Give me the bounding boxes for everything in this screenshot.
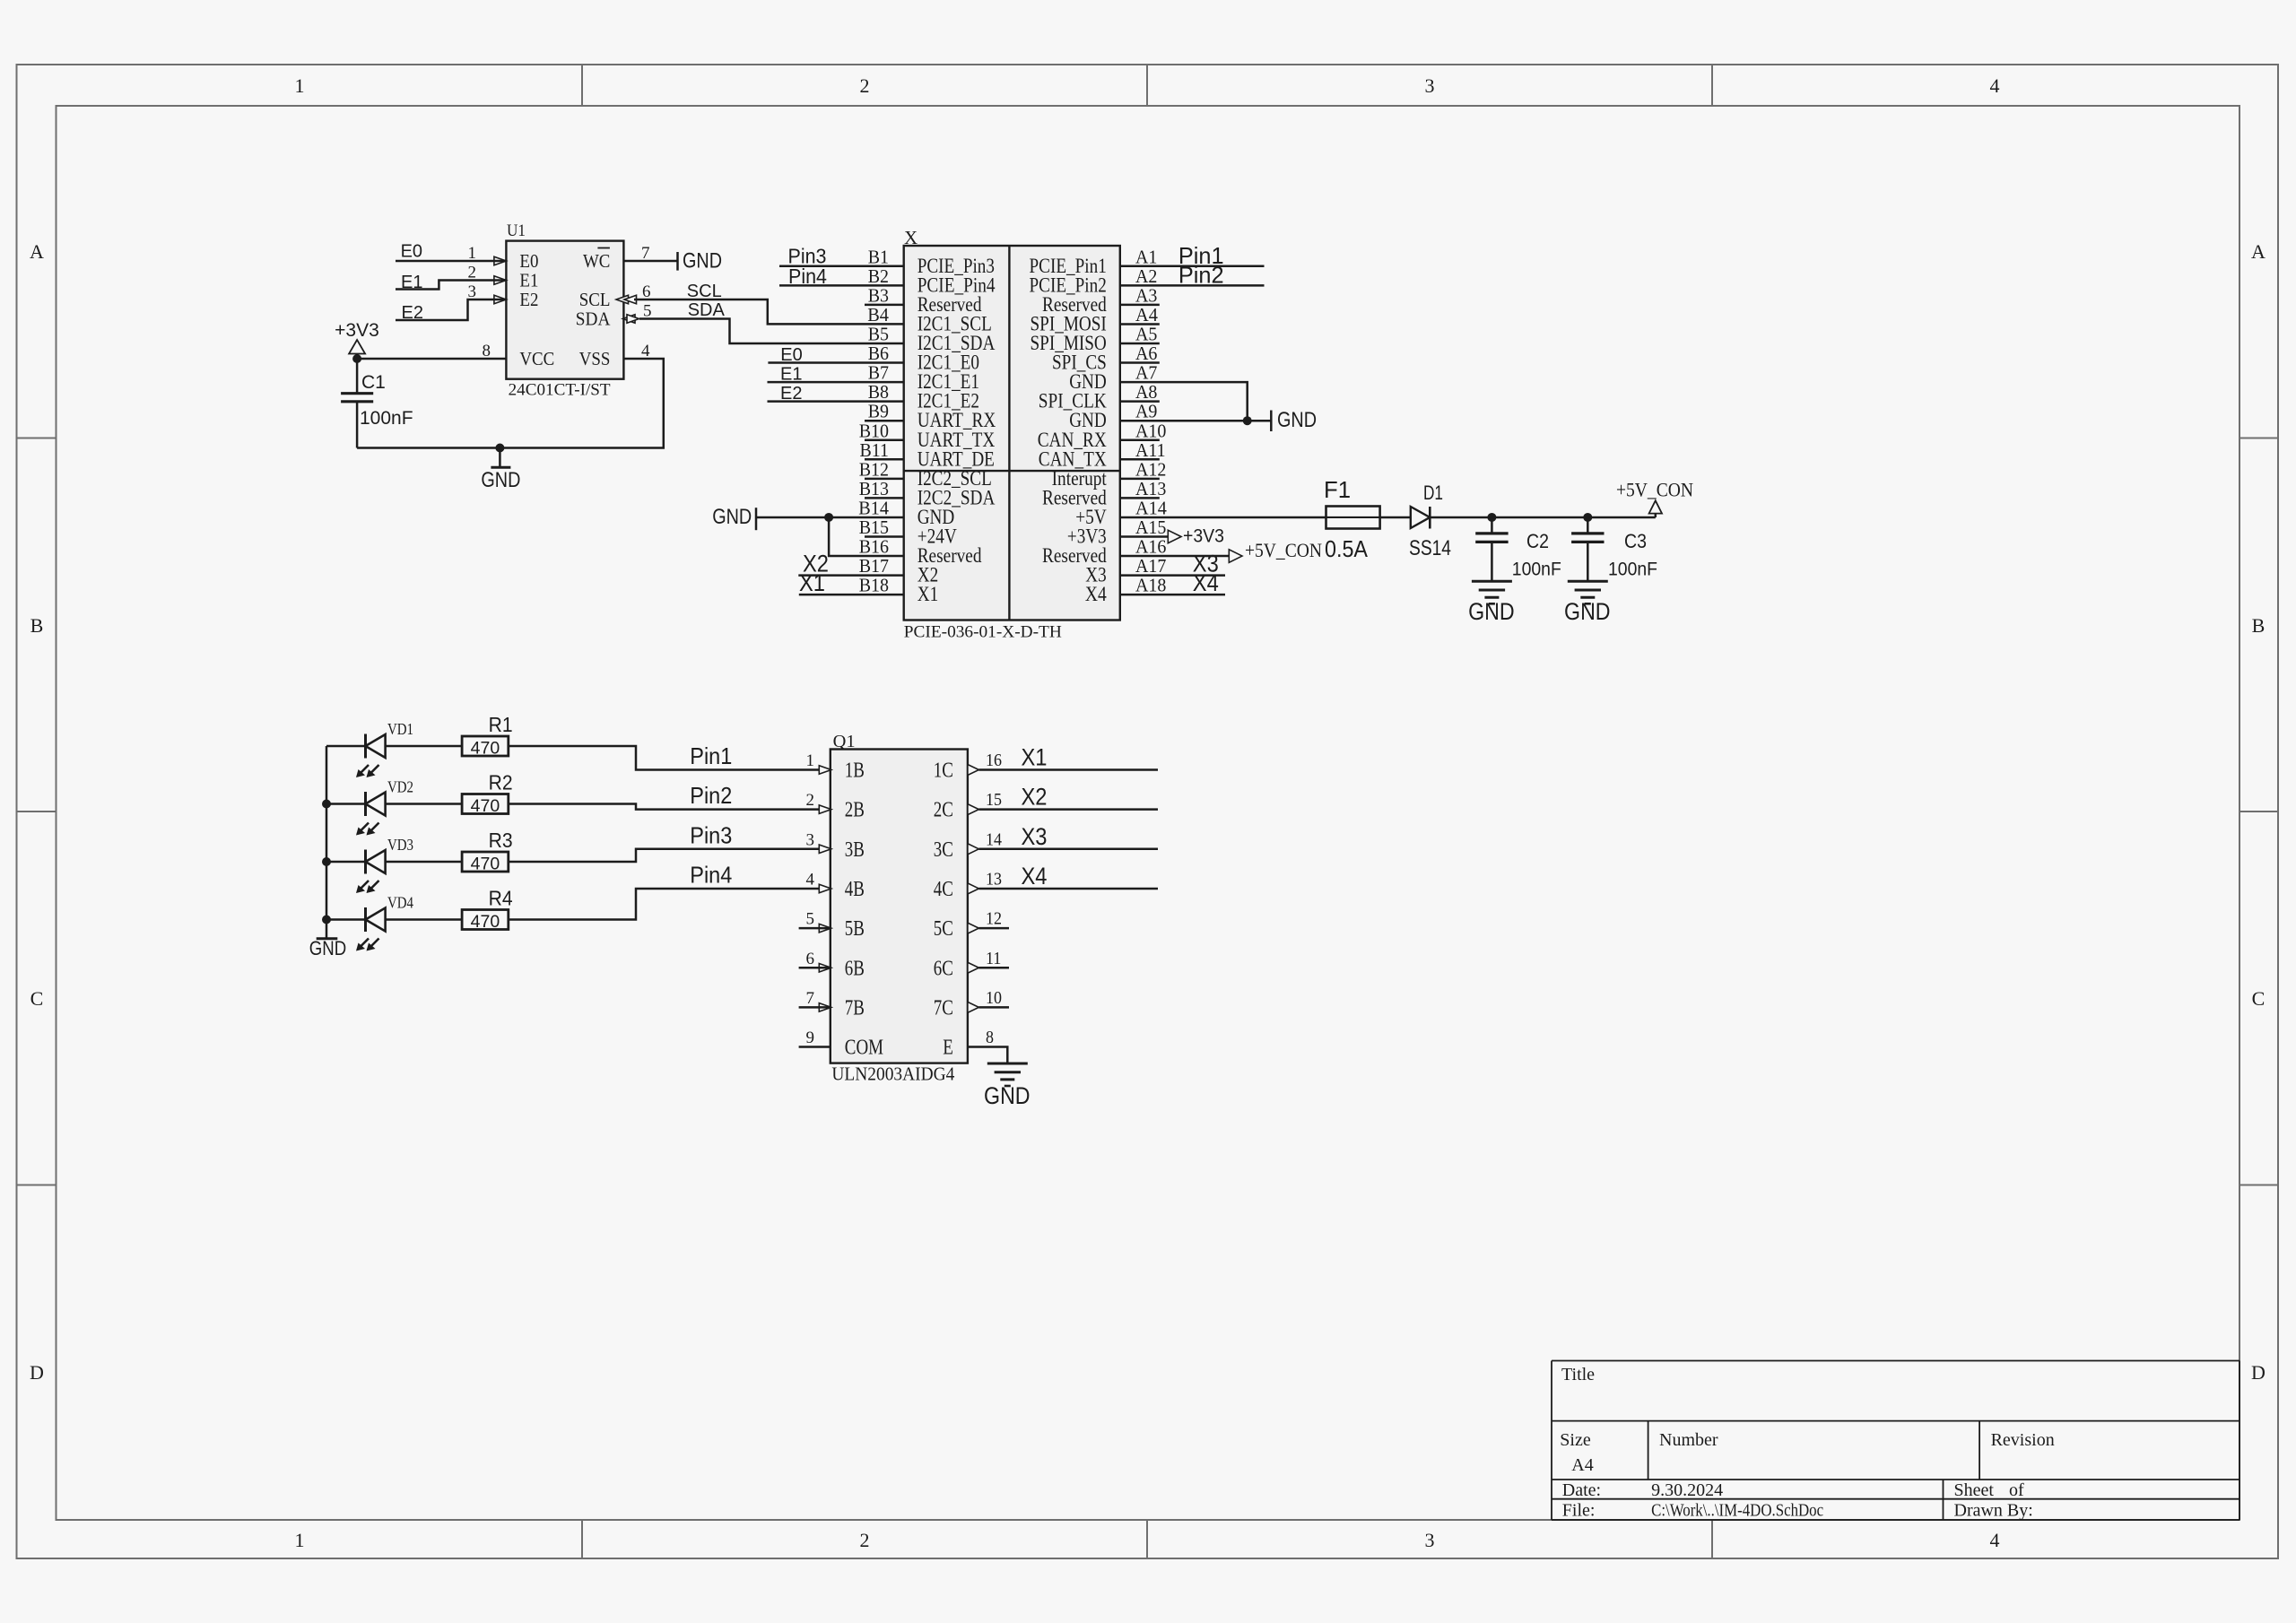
svg-text:F1: F1 xyxy=(1324,476,1351,503)
resistor R3 470 xyxy=(462,829,513,874)
wire R3 to Q1 pin 3 xyxy=(509,849,831,862)
svg-text:X1: X1 xyxy=(799,569,825,596)
svg-text:E2: E2 xyxy=(519,289,538,310)
svg-text:B18: B18 xyxy=(859,575,889,596)
net label X3 at X A17 xyxy=(1193,551,1219,577)
svg-text:3: 3 xyxy=(1425,1529,1435,1551)
wire X4 from Q1 pin 13 xyxy=(978,888,1158,890)
svg-text:X: X xyxy=(904,227,918,248)
wire E0 to X B6 xyxy=(768,361,903,364)
svg-text:B12: B12 xyxy=(859,458,889,480)
svg-text:X4: X4 xyxy=(1193,569,1219,596)
svg-text:B3: B3 xyxy=(868,284,889,306)
wire stub Q1 pin 7B xyxy=(799,1006,831,1009)
junction on LED bus row 3 xyxy=(322,857,331,866)
svg-text:SCL: SCL xyxy=(579,289,611,310)
svg-text:0.5A: 0.5A xyxy=(1325,535,1369,562)
svg-text:A5: A5 xyxy=(1135,324,1157,345)
svg-text:X4: X4 xyxy=(1022,863,1048,890)
svg-text:A7: A7 xyxy=(1135,362,1157,384)
wire E2 to U1 pin 3 xyxy=(396,299,506,320)
svg-text:Title: Title xyxy=(1561,1365,1595,1384)
svg-text:1B: 1B xyxy=(845,759,865,783)
wire X1 from Q1 pin 16 xyxy=(978,768,1158,771)
resistor R1 470 xyxy=(462,713,513,759)
wire SDA U1 pin5 to X B5 xyxy=(639,319,904,344)
resistor R2 470 xyxy=(462,771,513,817)
wire stub X pin A12 xyxy=(1120,478,1160,481)
svg-text:B13: B13 xyxy=(859,478,889,499)
wire X4 at X A18 xyxy=(1120,594,1225,596)
wire Q1 E pin8 to ground GND xyxy=(968,1047,1031,1109)
net label E0 at X B6 xyxy=(780,345,802,365)
svg-text:Pin1: Pin1 xyxy=(690,742,732,769)
net label Pin1 xyxy=(690,742,732,769)
net label X3 at Q1 xyxy=(1022,823,1048,850)
svg-text:E0: E0 xyxy=(519,250,538,272)
svg-text:E0: E0 xyxy=(401,242,422,262)
svg-text:GND: GND xyxy=(984,1082,1031,1109)
svg-text:5C: 5C xyxy=(934,917,953,941)
svg-text:GND: GND xyxy=(1564,598,1611,625)
svg-text:3B: 3B xyxy=(845,838,865,862)
net label X2 at X B17 xyxy=(803,551,829,577)
wire stub X pin B15 xyxy=(865,535,904,538)
svg-text:11: 11 xyxy=(986,949,1001,968)
svg-text:A: A xyxy=(2251,240,2266,263)
svg-text:B16: B16 xyxy=(859,536,889,558)
svg-text:SDA: SDA xyxy=(688,300,726,320)
resistor R4 470 xyxy=(462,887,513,933)
net label E2 xyxy=(402,303,423,323)
wire stub Q1 pin 5C xyxy=(978,927,1009,930)
wire R2 to Q1 pin 2 xyxy=(509,804,831,810)
wire Pin3 to X B1 xyxy=(779,265,904,268)
svg-text:A1: A1 xyxy=(1135,246,1157,267)
wire stub X pin A3 xyxy=(1120,304,1160,307)
net label E0 xyxy=(401,242,422,262)
svg-text:6: 6 xyxy=(806,950,815,968)
wire SCL U1 pin6 to X B4 xyxy=(634,299,904,324)
LED VD3 xyxy=(326,836,462,893)
net label X1 at X B18 xyxy=(799,569,825,596)
svg-text:9: 9 xyxy=(806,1028,815,1047)
svg-text:SS14: SS14 xyxy=(1409,536,1451,560)
svg-text:PCIE-036-01-X-D-TH: PCIE-036-01-X-D-TH xyxy=(904,623,1062,642)
svg-text:2B: 2B xyxy=(845,799,865,822)
svg-text:X4: X4 xyxy=(1085,583,1107,605)
svg-text:D1: D1 xyxy=(1423,482,1443,504)
wire X A7 GND down xyxy=(1120,382,1248,421)
svg-text:4: 4 xyxy=(806,870,815,889)
svg-text:WC: WC xyxy=(583,250,610,272)
svg-text:VD3: VD3 xyxy=(387,836,413,854)
svg-text:470: 470 xyxy=(471,739,500,759)
svg-text:ULN2003AIDG4: ULN2003AIDG4 xyxy=(831,1063,954,1085)
wire E0 to U1 pin 1 xyxy=(396,260,506,263)
svg-text:+5V_CON: +5V_CON xyxy=(1616,479,1693,501)
svg-text:C3: C3 xyxy=(1624,530,1647,552)
svg-text:470: 470 xyxy=(471,796,500,816)
net label Pin2 at X A2 xyxy=(1178,262,1224,289)
svg-text:X3: X3 xyxy=(1022,823,1048,850)
svg-text:X1: X1 xyxy=(1022,744,1048,771)
svg-text:B6: B6 xyxy=(868,343,889,364)
wire stub X pin A10 xyxy=(1120,439,1160,442)
svg-text:2: 2 xyxy=(860,1529,870,1551)
wire LED cathode bus xyxy=(326,746,328,938)
ground GND at X A9 xyxy=(1271,408,1317,432)
svg-text:B4: B4 xyxy=(867,304,889,325)
net label SCL xyxy=(687,282,722,301)
wire X A2 Pin2 xyxy=(1120,284,1265,287)
svg-text:Number: Number xyxy=(1659,1430,1718,1450)
wire X A9 GND xyxy=(1120,420,1272,422)
svg-text:A10: A10 xyxy=(1135,420,1166,441)
svg-text:A8: A8 xyxy=(1135,381,1157,403)
svg-text:A2: A2 xyxy=(1135,265,1157,287)
svg-text:B2: B2 xyxy=(868,265,889,287)
capacitor C1 100nF xyxy=(341,359,413,448)
net label Pin2 xyxy=(690,782,732,809)
svg-text:5B: 5B xyxy=(845,917,865,941)
svg-text:B11: B11 xyxy=(860,439,890,461)
wire stub X pin B13 xyxy=(865,497,904,499)
wire stub X pin A6 xyxy=(1120,361,1160,364)
svg-text:B14: B14 xyxy=(858,497,889,518)
junction at C3 xyxy=(1583,513,1592,522)
junction on LED bus row 2 xyxy=(322,800,331,809)
junction on LED bus row 4 xyxy=(322,916,331,924)
svg-text:A14: A14 xyxy=(1135,497,1167,518)
svg-text:VD1: VD1 xyxy=(387,720,413,738)
svg-text:16: 16 xyxy=(986,751,1002,770)
svg-text:100nF: 100nF xyxy=(1512,560,1561,580)
svg-text:Sheet: Sheet xyxy=(1954,1480,1995,1500)
svg-text:VSS: VSS xyxy=(579,348,611,369)
svg-text:VD4: VD4 xyxy=(387,894,413,912)
svg-text:D: D xyxy=(30,1361,44,1384)
svg-text:A4: A4 xyxy=(1135,304,1158,325)
svg-text:100nF: 100nF xyxy=(360,408,413,429)
svg-text:of: of xyxy=(2009,1480,2024,1500)
net label X2 at Q1 xyxy=(1022,784,1048,811)
svg-text:Pin2: Pin2 xyxy=(1178,262,1224,289)
net label E1 at X B7 xyxy=(780,365,802,385)
svg-text:7C: 7C xyxy=(934,996,953,1020)
svg-text:U1: U1 xyxy=(507,221,526,240)
capacitor C3 100nF with ground GND xyxy=(1564,517,1657,625)
svg-text:10: 10 xyxy=(986,988,1002,1008)
wire X2 from Q1 pin 15 xyxy=(978,808,1158,811)
svg-text:5: 5 xyxy=(806,910,815,929)
wire U1 pin4 VSS to GND bus xyxy=(357,359,664,448)
svg-text:15: 15 xyxy=(986,790,1002,810)
wire stub X pin B3 xyxy=(865,304,904,307)
capacitor C2 100nF with ground GND xyxy=(1468,517,1561,625)
svg-text:GND: GND xyxy=(712,505,752,529)
svg-text:GND: GND xyxy=(481,468,520,492)
wire stub Q1 pin 6C xyxy=(978,967,1009,969)
svg-text:SDA: SDA xyxy=(576,308,611,330)
wire stub Q1 pin COM pin 9 xyxy=(799,1046,831,1048)
power +3V3 at X A15 xyxy=(1120,526,1224,547)
ground GND below U1 xyxy=(481,448,520,493)
svg-text:C:\Work\..\IM-4DO.SchDoc: C:\Work\..\IM-4DO.SchDoc xyxy=(1651,1501,1823,1521)
power +5V_CON at X A16 xyxy=(1120,539,1322,562)
wire stub X pin A13 xyxy=(1120,497,1160,499)
svg-text:B8: B8 xyxy=(868,381,889,403)
svg-text:A12: A12 xyxy=(1135,458,1166,480)
wire stub X pin A5 xyxy=(1120,343,1160,345)
wire stub X pin B11 xyxy=(865,458,904,461)
svg-text:A17: A17 xyxy=(1135,555,1166,577)
LED VD2 xyxy=(326,778,462,836)
wire X3 from Q1 pin 14 xyxy=(978,848,1158,851)
svg-text:R4: R4 xyxy=(489,887,513,910)
power +5V_CON at rail end xyxy=(1616,479,1693,517)
svg-text:A6: A6 xyxy=(1135,343,1157,364)
net label Pin3 xyxy=(690,821,732,848)
ground GND at X B14 xyxy=(712,505,904,530)
wire U1 pin7 WC to ground GND xyxy=(623,249,722,273)
svg-text:100nF: 100nF xyxy=(1608,560,1657,580)
svg-text:3: 3 xyxy=(1425,74,1435,97)
svg-text:COM: COM xyxy=(845,1037,883,1060)
wire D1 to +5V_CON xyxy=(1430,516,1656,519)
svg-text:GND: GND xyxy=(309,937,346,959)
svg-text:Q1: Q1 xyxy=(833,732,856,751)
junction at B14 GND xyxy=(824,513,833,522)
svg-text:+3V3: +3V3 xyxy=(1183,526,1224,547)
net label Pin4 xyxy=(690,861,732,888)
svg-text:8: 8 xyxy=(986,1028,994,1047)
wire E1 to X B7 xyxy=(768,381,904,384)
svg-text:6B: 6B xyxy=(845,957,865,980)
svg-text:X1: X1 xyxy=(918,583,938,605)
svg-text:File:: File: xyxy=(1562,1501,1596,1521)
svg-text:A13: A13 xyxy=(1135,478,1166,499)
wire Pin4 to X B2 xyxy=(779,284,904,287)
svg-text:7: 7 xyxy=(806,989,815,1008)
svg-text:2: 2 xyxy=(806,791,815,810)
svg-text:Pin4: Pin4 xyxy=(690,861,732,888)
svg-text:Pin2: Pin2 xyxy=(690,782,732,809)
wire E2 to X B8 xyxy=(768,400,904,403)
svg-text:+3V3: +3V3 xyxy=(335,320,379,341)
svg-text:Size: Size xyxy=(1560,1430,1591,1450)
net label X4 at Q1 xyxy=(1022,863,1048,890)
svg-text:A9: A9 xyxy=(1135,401,1157,422)
svg-text:B: B xyxy=(2252,614,2266,637)
svg-text:+5V_CON: +5V_CON xyxy=(1245,539,1322,561)
fuse F1 0.5A xyxy=(1324,476,1380,562)
wire stub Q1 pin 7C xyxy=(978,1006,1009,1009)
svg-text:12: 12 xyxy=(986,909,1002,929)
svg-text:3: 3 xyxy=(806,830,815,849)
svg-text:4: 4 xyxy=(1990,74,2000,97)
svg-text:1: 1 xyxy=(295,1529,305,1551)
net label X4 at X A18 xyxy=(1193,569,1219,596)
wire stub X pin B10 xyxy=(865,439,904,442)
wire X3 at X A17 xyxy=(1120,574,1225,577)
svg-text:GND: GND xyxy=(1277,408,1317,432)
svg-text:R3: R3 xyxy=(489,829,513,852)
svg-text:B1: B1 xyxy=(868,246,889,267)
wire stub Q1 pin 6B xyxy=(799,967,831,969)
svg-text:E: E xyxy=(943,1037,953,1060)
svg-text:B9: B9 xyxy=(868,401,889,422)
net label Pin3 at X B1 xyxy=(788,245,827,268)
junction on GND bus below U1 xyxy=(495,444,504,453)
wire stub X pin B9 xyxy=(865,420,904,422)
net label SDA xyxy=(688,300,726,320)
svg-text:24C01CT-I/ST: 24C01CT-I/ST xyxy=(509,381,611,400)
svg-text:9.30.2024: 9.30.2024 xyxy=(1651,1480,1723,1500)
power +3V3 at U1 VCC xyxy=(335,320,379,360)
svg-text:4C: 4C xyxy=(934,878,953,901)
net label E1 xyxy=(401,273,422,292)
svg-text:R1: R1 xyxy=(489,713,513,736)
svg-text:C: C xyxy=(2252,987,2266,1010)
wire X2 to X B17 xyxy=(798,574,903,577)
svg-text:7B: 7B xyxy=(845,996,865,1020)
ground GND at LED bus xyxy=(309,937,346,959)
svg-text:A: A xyxy=(30,240,44,263)
junction at A9 GND xyxy=(1243,416,1252,425)
wire +5V rail X A14 to fuse F1 xyxy=(1120,516,1326,519)
junction at C2 xyxy=(1487,513,1496,522)
net label Pin1 at X A1 xyxy=(1178,242,1224,269)
svg-text:B7: B7 xyxy=(868,362,889,384)
svg-text:Drawn By:: Drawn By: xyxy=(1954,1501,2033,1521)
svg-text:GND: GND xyxy=(1468,598,1515,625)
net label Pin4 at X B2 xyxy=(788,265,827,288)
wire E1 to U1 pin 2 xyxy=(396,281,506,290)
svg-text:470: 470 xyxy=(471,855,500,874)
svg-text:Revision: Revision xyxy=(1991,1430,2055,1450)
svg-text:1: 1 xyxy=(295,74,305,97)
svg-text:B5: B5 xyxy=(868,324,889,345)
IC U1 24C01CT-I/ST xyxy=(468,221,652,400)
svg-text:VD2: VD2 xyxy=(387,778,413,796)
svg-text:D: D xyxy=(2251,1361,2266,1384)
svg-text:3C: 3C xyxy=(934,838,953,862)
wire R1 to Q1 pin 1 xyxy=(509,746,831,770)
net label X1 at Q1 xyxy=(1022,744,1048,771)
svg-text:A3: A3 xyxy=(1135,284,1157,306)
svg-text:B17: B17 xyxy=(859,555,889,577)
wire stub Q1 pin 5B xyxy=(799,927,831,930)
svg-text:X2: X2 xyxy=(1022,784,1048,811)
svg-text:1: 1 xyxy=(806,751,815,770)
svg-text:13: 13 xyxy=(986,869,1002,889)
LED VD4 xyxy=(326,894,462,951)
wire stub X pin A8 xyxy=(1120,400,1160,403)
svg-text:14: 14 xyxy=(986,829,1002,849)
svg-text:A15: A15 xyxy=(1135,516,1166,538)
svg-text:A11: A11 xyxy=(1135,439,1166,461)
svg-text:A18: A18 xyxy=(1135,575,1166,596)
svg-text:6C: 6C xyxy=(934,957,953,980)
diode D1 SS14 xyxy=(1409,482,1451,560)
wire B14 GND to B16 xyxy=(829,517,904,556)
svg-text:A16: A16 xyxy=(1135,536,1166,558)
IC Q1 ULN2003AIDG4 xyxy=(806,732,1003,1085)
wire F1 to D1 xyxy=(1380,516,1411,519)
wire X A1 Pin1 xyxy=(1120,265,1265,268)
wire stub X pin A4 xyxy=(1120,323,1160,325)
wire stub X pin B12 xyxy=(865,478,904,481)
svg-text:C1: C1 xyxy=(361,372,386,393)
wire X1 to X B18 xyxy=(799,594,904,596)
wire R4 to Q1 pin 4 xyxy=(509,889,831,920)
wire stub X pin A11 xyxy=(1120,458,1160,461)
connector X PCIE-036-01-X-D-TH xyxy=(858,227,1167,642)
wire +3V3 to U1 pin8 VCC xyxy=(357,358,506,360)
net label E2 at X B8 xyxy=(780,384,802,404)
svg-text:Pin3: Pin3 xyxy=(690,821,732,848)
svg-text:C2: C2 xyxy=(1526,530,1549,552)
svg-text:SCL: SCL xyxy=(687,282,722,301)
svg-text:1C: 1C xyxy=(934,759,953,783)
svg-text:470: 470 xyxy=(471,912,500,932)
svg-text:4B: 4B xyxy=(845,878,865,901)
svg-text:B: B xyxy=(30,614,44,637)
svg-text:Date:: Date: xyxy=(1562,1480,1601,1500)
svg-text:B15: B15 xyxy=(859,516,889,538)
svg-text:GND: GND xyxy=(683,249,722,273)
svg-text:2C: 2C xyxy=(934,799,953,822)
svg-text:VCC: VCC xyxy=(519,348,554,369)
LED VD1 xyxy=(326,720,462,777)
svg-text:R2: R2 xyxy=(489,771,513,794)
svg-text:E1: E1 xyxy=(519,270,538,291)
svg-text:4: 4 xyxy=(1990,1529,2000,1551)
junction at C1 top xyxy=(352,354,361,363)
title block xyxy=(1552,1361,2239,1521)
svg-text:C: C xyxy=(30,987,44,1010)
svg-text:A4: A4 xyxy=(1571,1455,1593,1475)
svg-text:2: 2 xyxy=(860,74,870,97)
svg-text:B10: B10 xyxy=(859,420,889,441)
